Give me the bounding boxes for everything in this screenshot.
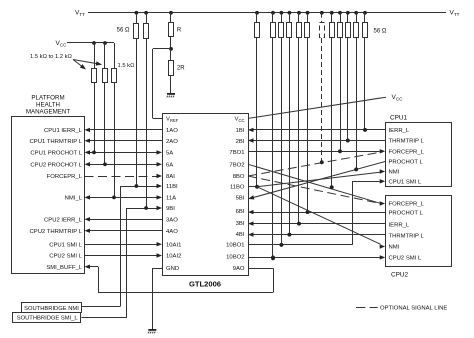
svg-text:THRMTRIP L: THRMTRIP L [389,233,425,239]
svg-text:VREF: VREF [166,117,179,123]
svg-text:CPU2 SMI L: CPU2 SMI L [49,254,82,260]
svg-text:11BI: 11BI [166,184,178,190]
svg-text:8AI: 8AI [166,174,175,180]
svg-text:NMI_L: NMI_L [65,196,83,202]
svg-text:5BI: 5BI [236,196,245,202]
svg-text:MANAGEMENT: MANAGEMENT [26,109,71,116]
svg-text:THRMTRIP L: THRMTRIP L [389,139,425,145]
svg-text:CPU1: CPU1 [390,115,407,122]
svg-text:1.5 kΩ: 1.5 kΩ [118,63,136,69]
svg-text:56 Ω: 56 Ω [374,29,387,35]
svg-text:PROCHOT L: PROCHOT L [389,211,424,217]
svg-text:CPU1 THRMTRIP L: CPU1 THRMTRIP L [30,139,83,145]
svg-text:3BI: 3BI [236,221,245,227]
svg-text:9BI: 9BI [166,206,175,212]
svg-text:CPU1 PROCHOT L: CPU1 PROCHOT L [30,151,82,157]
svg-text:CPU2: CPU2 [391,272,408,279]
svg-text:7BO2: 7BO2 [229,163,244,169]
svg-text:CPU1 SMI L: CPU1 SMI L [389,179,422,185]
svg-text:7BO1: 7BO1 [229,150,244,156]
svg-text:2BI: 2BI [236,139,245,145]
svg-text:VCC: VCC [235,117,245,123]
svg-text:2R: 2R [177,66,185,72]
svg-text:CPU2 THRMTRIP L: CPU2 THRMTRIP L [30,229,83,235]
svg-text:CPU2 SMI L: CPU2 SMI L [389,256,422,262]
svg-text:10BO2: 10BO2 [226,254,244,260]
svg-text:1BI: 1BI [236,128,245,134]
svg-text:CPU2 PROCHOT L: CPU2 PROCHOT L [30,162,82,168]
svg-text:11BO: 11BO [230,185,245,191]
svg-text:R: R [177,28,182,34]
svg-text:8BO: 8BO [233,174,245,180]
svg-text:5A: 5A [166,151,173,157]
svg-text:SOUTHBRIDGE NMI: SOUTHBRIDGE NMI [24,306,79,312]
svg-text:NMI: NMI [389,245,400,251]
svg-text:GTL2006: GTL2006 [189,280,221,289]
svg-text:OPTIONAL SIGNAL LINE: OPTIONAL SIGNAL LINE [380,305,447,311]
svg-text:GND: GND [166,266,179,272]
svg-text:CPU1 IERR_L: CPU1 IERR_L [44,128,83,134]
svg-text:6BI: 6BI [236,209,245,215]
svg-text:PROCHOT L: PROCHOT L [389,160,424,166]
svg-text:NMI: NMI [389,170,400,176]
svg-text:SMI_BUFF_L: SMI_BUFF_L [46,265,82,271]
svg-text:FORCEPR_L: FORCEPR_L [389,202,425,208]
svg-text:FORCEPR_L: FORCEPR_L [47,174,83,180]
svg-text:IERR_L: IERR_L [389,128,410,134]
svg-text:4BI: 4BI [236,232,245,238]
svg-text:10AI1: 10AI1 [166,242,181,248]
svg-text:HEALTH: HEALTH [36,102,60,109]
svg-text:56 Ω: 56 Ω [117,28,130,34]
svg-text:IERR_L: IERR_L [389,222,410,228]
svg-text:10AI2: 10AI2 [166,254,181,260]
svg-text:4AO: 4AO [166,229,178,235]
svg-text:11A: 11A [166,196,176,202]
svg-text:2AO: 2AO [166,139,178,145]
svg-text:1.5 kΩ to 1.2 kΩ: 1.5 kΩ to 1.2 kΩ [30,54,73,60]
svg-text:FORCEPR_L: FORCEPR_L [389,149,425,155]
svg-text:10BO1: 10BO1 [226,243,244,249]
svg-text:CPU2 IERR_L: CPU2 IERR_L [44,217,83,223]
svg-text:PLATFORM: PLATFORM [31,95,64,102]
svg-text:9AO: 9AO [233,266,245,272]
svg-text:3AO: 3AO [166,218,178,224]
svg-text:SOUTHBRIDGE SMI_L: SOUTHBRIDGE SMI_L [17,316,79,322]
svg-text:CPU1 SMI L: CPU1 SMI L [49,242,82,248]
svg-text:6A: 6A [166,163,173,169]
svg-text:1AO: 1AO [166,128,178,134]
